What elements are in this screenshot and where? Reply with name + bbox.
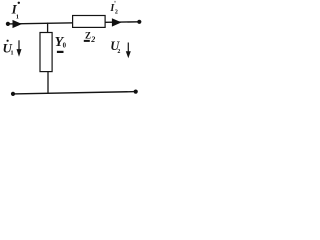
svg-text:Z: Z [85,31,91,41]
svg-text:2: 2 [90,35,95,44]
terminal dot bottom-right [134,90,138,94]
label Y0 [55,35,67,50]
current arrow I1 [13,20,23,28]
label I2 [109,1,118,16]
svg-text:0: 0 [63,43,67,50]
wire shunt bottom [47,72,49,94]
terminal dot top-left [6,22,10,26]
wire top [8,22,139,24]
svg-text:2: 2 [117,49,120,55]
voltage arrow U1 [17,40,22,57]
label Z2 [85,31,95,45]
underline of Y0 [57,51,64,53]
current arrow I2 [112,18,122,26]
wire bottom [13,92,136,94]
impedance box Z2 [73,16,106,28]
wire shunt top [47,23,49,33]
terminal dot top-right [137,20,141,24]
terminal dot bottom-left [11,92,15,96]
svg-text:1: 1 [16,13,19,20]
underline of Z2 [84,40,90,42]
svg-text:2: 2 [115,10,118,16]
label I1 [11,1,20,20]
voltage arrow U2 [126,43,131,59]
label U1 [3,40,14,57]
admittance box Y0 [40,33,52,72]
label U2 [110,39,120,55]
svg-text:1: 1 [10,50,13,57]
